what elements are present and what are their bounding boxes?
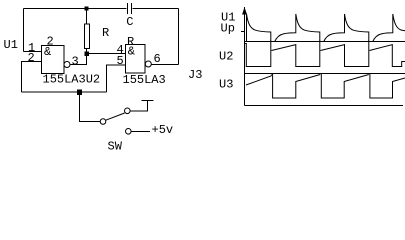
wire pin3 to junction [71, 56, 87, 65]
junction top rail / resistor [85, 7, 89, 11]
junction bottom rail to switch [77, 90, 82, 96]
axis arrow [242, 7, 247, 15]
waveform U1 [247, 14, 405, 42]
wire right vertical to pin6 [178, 9, 180, 65]
resistor R [86, 11, 88, 25]
waveform U3 [246, 74, 405, 99]
gate U2 body [126, 45, 146, 74]
svg-text:Up: Up [221, 22, 235, 36]
wire upper contact to T symbol [130, 101, 147, 112]
svg-text:J3: J3 [188, 68, 202, 82]
svg-text:6: 6 [154, 52, 161, 66]
wire left vertical from top rail to pin1 [23, 9, 25, 52]
switch lower contact [126, 129, 132, 135]
plot2 baseline [245, 73, 405, 75]
wire top rail right of capacitor [133, 8, 179, 10]
waveform axis vertical [244, 7, 246, 106]
plot3 baseline [245, 105, 404, 107]
switch lever [106, 113, 125, 120]
svg-text:U1: U1 [4, 38, 18, 52]
wire pin1 [24, 51, 42, 53]
svg-text:155LA3: 155LA3 [123, 73, 166, 87]
gate U1 output bubble [64, 62, 70, 68]
svg-text:U2: U2 [219, 50, 233, 64]
T symbol bar [142, 100, 154, 102]
wire switch feed [80, 95, 101, 122]
capacitor C [128, 3, 132, 14]
svg-text:2: 2 [28, 51, 35, 65]
axis tick Up [241, 31, 245, 33]
gate U2 output bubble [145, 61, 151, 67]
wire resistor bottom [86, 49, 88, 52]
svg-text:3: 3 [72, 55, 79, 69]
wire bottom rail [22, 91, 107, 93]
wire pin2 with left drop [22, 62, 42, 93]
svg-text:5: 5 [117, 54, 124, 68]
svg-text:U3: U3 [219, 78, 233, 92]
waveform U2 [245, 41, 405, 67]
wire riser to pin5 [107, 65, 126, 92]
svg-text:C: C [126, 15, 133, 29]
junction resistor / pin3 / pin4 [85, 52, 90, 57]
svg-text:SW: SW [108, 140, 123, 154]
wire pin4 [89, 53, 126, 55]
wire lower contact to +5v [131, 131, 150, 133]
svg-text:155LA3: 155LA3 [43, 73, 86, 87]
switch SW common contact [100, 119, 106, 125]
gate U1 body [42, 46, 65, 74]
plot1 baseline [245, 41, 405, 43]
switch upper contact [125, 108, 131, 114]
wire top rail left of capacitor [24, 8, 127, 10]
svg-text:+5v: +5v [152, 123, 174, 137]
svg-text:U2: U2 [86, 73, 100, 87]
svg-text:R: R [102, 26, 109, 40]
svg-text:R: R [127, 35, 134, 49]
wire pin6 [151, 64, 178, 66]
svg-text:2: 2 [47, 35, 54, 49]
